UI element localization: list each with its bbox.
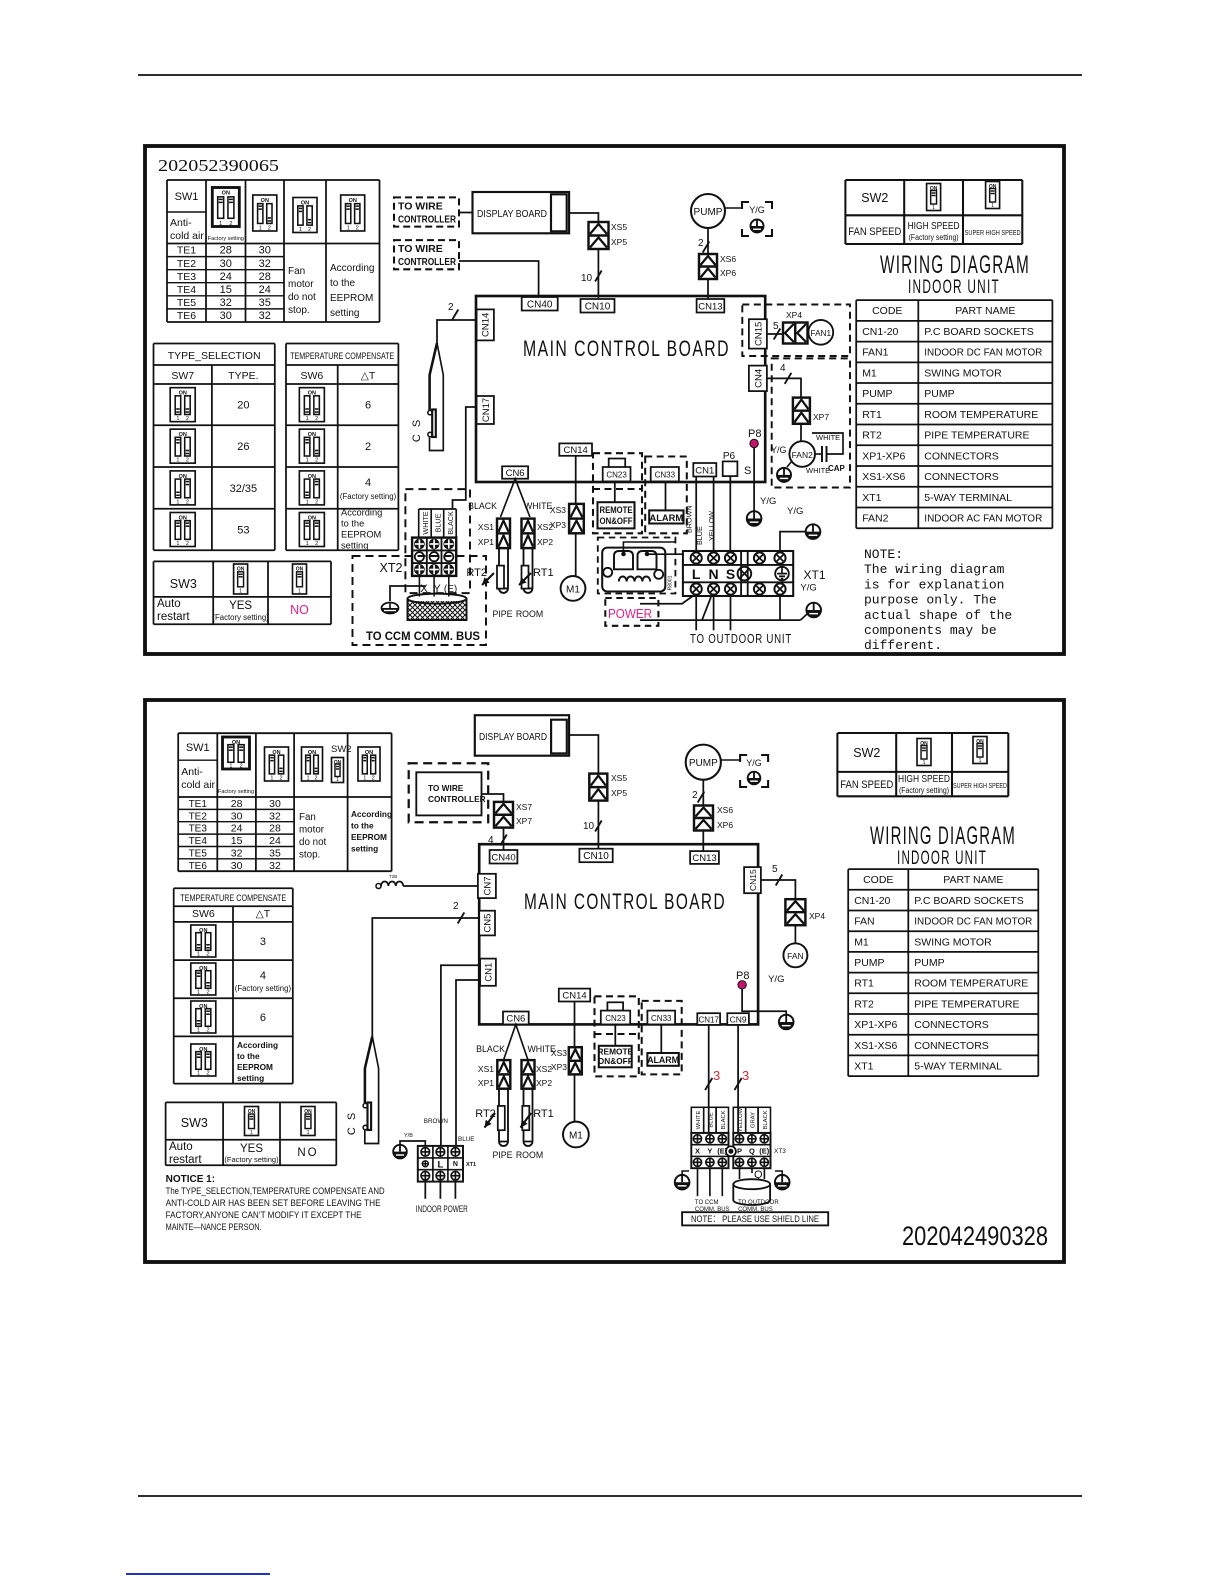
svg-text:FACTORY,ANYONE CAN’T MODIFY IT: FACTORY,ANYONE CAN’T MODIFY IT EXCEPT TH…: [166, 1210, 362, 1221]
svg-text:10: 10: [581, 273, 593, 284]
svg-text:According: According: [237, 1040, 278, 1050]
svg-text:setting: setting: [341, 541, 368, 551]
svg-text:TE2: TE2: [177, 258, 196, 270]
svg-text:35: 35: [259, 297, 271, 309]
svg-text:30: 30: [231, 810, 243, 822]
svg-text:32: 32: [231, 848, 243, 860]
svg-text:CN23: CN23: [605, 1014, 626, 1023]
svg-text:CONTROLLER: CONTROLLER: [398, 213, 456, 225]
svg-text:GRAY: GRAY: [750, 1112, 756, 1128]
svg-text:PIPE: PIPE: [492, 1150, 512, 1160]
svg-text:P: P: [737, 1147, 742, 1156]
svg-text:TE1: TE1: [189, 799, 208, 810]
svg-text:CN40: CN40: [491, 852, 515, 863]
svg-text:1: 1: [219, 221, 222, 227]
svg-text:MAINTE—NANCE PERSON.: MAINTE—NANCE PERSON.: [166, 1222, 262, 1233]
svg-text:2: 2: [207, 952, 210, 958]
svg-text:M1: M1: [569, 1131, 583, 1142]
svg-text:PUMP: PUMP: [689, 758, 718, 769]
svg-text:2: 2: [698, 238, 704, 249]
svg-text:Factory setting: Factory setting: [218, 789, 254, 795]
svg-text:NOTICE 1:: NOTICE 1:: [166, 1174, 215, 1185]
svg-text:XS1: XS1: [478, 1064, 494, 1074]
svg-text:CN10: CN10: [585, 301, 611, 312]
svg-text:26: 26: [237, 441, 249, 453]
svg-text:(Factory setting): (Factory setting): [212, 613, 269, 622]
svg-text:PUMP: PUMP: [924, 388, 954, 400]
svg-text:32: 32: [220, 297, 232, 309]
svg-text:SW1: SW1: [175, 191, 199, 203]
svg-text:32: 32: [269, 860, 281, 872]
svg-text:30: 30: [220, 258, 232, 270]
svg-text:XS6: XS6: [720, 254, 736, 264]
svg-text:REMOTE: REMOTE: [600, 505, 633, 515]
svg-text:INDOOR DC FAN MOTOR: INDOOR DC FAN MOTOR: [914, 916, 1032, 928]
svg-text:stop.: stop.: [299, 850, 320, 861]
svg-text:CN17: CN17: [698, 1016, 719, 1025]
svg-text:Y/G: Y/G: [768, 974, 784, 985]
svg-text:CONTROLLER: CONTROLLER: [398, 256, 456, 268]
svg-text:BLACK: BLACK: [476, 1044, 505, 1054]
svg-text:5-WAY TERMINAL: 5-WAY TERMINAL: [914, 1060, 1002, 1072]
svg-text:NOTE： PLEASE USE SHIELD LINE: NOTE： PLEASE USE SHIELD LINE: [691, 1214, 819, 1225]
svg-text:C S: C S: [411, 418, 423, 442]
svg-text:PART NAME: PART NAME: [955, 305, 1015, 317]
svg-text:FAN2: FAN2: [792, 450, 814, 460]
svg-text:TYPE.: TYPE.: [228, 370, 258, 382]
svg-text:TO CCM COMM. BUS: TO CCM COMM. BUS: [366, 629, 480, 643]
svg-text:RT2: RT2: [466, 567, 487, 579]
svg-text:2: 2: [365, 441, 371, 453]
svg-text:SW3: SW3: [181, 1116, 208, 1130]
svg-text:XP3: XP3: [550, 520, 566, 530]
svg-text:Y/G: Y/G: [771, 445, 787, 455]
svg-text:XP5: XP5: [611, 788, 627, 798]
svg-text:XP1-XP6: XP1-XP6: [854, 1019, 897, 1031]
svg-text:ROOM TEMPERATURE: ROOM TEMPERATURE: [924, 409, 1038, 421]
svg-text:CN14: CN14: [564, 445, 588, 456]
svg-text:restart: restart: [169, 1154, 202, 1166]
svg-text:Y/B: Y/B: [404, 1133, 413, 1139]
svg-text:WIRING DIAGRAM: WIRING DIAGRAM: [870, 822, 1016, 850]
svg-text:do not: do not: [299, 837, 327, 848]
svg-text:XP4: XP4: [786, 310, 802, 320]
svg-text:32: 32: [269, 810, 281, 822]
svg-text:1: 1: [363, 776, 366, 782]
svg-text:PART NAME: PART NAME: [943, 874, 1003, 886]
svg-text:24: 24: [220, 271, 232, 283]
svg-text:According: According: [330, 263, 374, 274]
svg-text:P.C BOARD SOCKETS: P.C BOARD SOCKETS: [914, 895, 1024, 907]
svg-text:TO CCM: TO CCM: [695, 1200, 719, 1206]
svg-text:INDOOR UNIT: INDOOR UNIT: [908, 277, 1000, 298]
svg-text:components may be: components may be: [864, 623, 997, 638]
svg-text:CN13: CN13: [692, 853, 716, 864]
svg-text:According: According: [341, 508, 382, 518]
svg-text:2: 2: [308, 227, 311, 233]
svg-text:NOTE:: NOTE:: [864, 547, 903, 562]
svg-text:XT2: XT2: [380, 561, 403, 575]
svg-text:INDOOR UNIT: INDOOR UNIT: [897, 848, 987, 869]
svg-text:XS1-XS6: XS1-XS6: [862, 471, 905, 483]
svg-text:2: 2: [240, 764, 243, 770]
svg-text:202042490328: 202042490328: [902, 1221, 1048, 1251]
svg-text:SW2: SW2: [331, 744, 352, 755]
svg-text:15: 15: [220, 284, 232, 296]
svg-text:32/35: 32/35: [230, 483, 258, 495]
svg-text:BROWN: BROWN: [424, 1118, 449, 1125]
svg-text:1: 1: [197, 952, 200, 958]
svg-text:C S: C S: [346, 1111, 358, 1135]
svg-text:30: 30: [231, 860, 243, 872]
svg-text:CN14: CN14: [562, 991, 586, 1002]
svg-text:RT1: RT1: [533, 567, 554, 579]
svg-text:actual shape of the: actual shape of the: [864, 608, 1012, 623]
svg-text:CN13: CN13: [698, 301, 722, 312]
svg-text:different.: different.: [864, 638, 942, 653]
svg-text:XP7: XP7: [813, 412, 829, 422]
svg-text:1: 1: [307, 1130, 310, 1136]
svg-text:CN1-20: CN1-20: [854, 895, 890, 907]
svg-text:XS1-XS6: XS1-XS6: [854, 1040, 897, 1052]
svg-text:2: 2: [692, 790, 698, 801]
svg-text:T2B: T2B: [389, 874, 397, 879]
svg-text:WHITE: WHITE: [696, 1111, 702, 1130]
svg-text:REMOTE: REMOTE: [598, 1047, 634, 1057]
svg-text:2: 2: [186, 416, 189, 422]
svg-text:1: 1: [197, 1028, 200, 1034]
svg-text:SW3: SW3: [170, 577, 197, 591]
svg-text:2: 2: [356, 226, 359, 232]
svg-text:(Factory setting): (Factory setting): [909, 233, 959, 242]
svg-text:2: 2: [314, 776, 317, 782]
svg-text:HIGH SPEED: HIGH SPEED: [898, 773, 950, 785]
svg-text:Y: Y: [707, 1147, 712, 1156]
svg-text:INDOOR DC FAN MOTOR: INDOOR DC FAN MOTOR: [924, 347, 1042, 359]
svg-text:BLUE: BLUE: [708, 1112, 714, 1127]
svg-text:CN33: CN33: [651, 1014, 672, 1023]
svg-text:1: 1: [270, 776, 273, 782]
svg-text:restart: restart: [157, 611, 190, 623]
svg-text:BLACK: BLACK: [763, 1110, 769, 1129]
svg-text:motor: motor: [288, 279, 314, 290]
svg-text:32: 32: [259, 258, 271, 270]
svg-text:BLACK: BLACK: [468, 501, 497, 511]
svg-text:TO OUTDOOR UNIT: TO OUTDOOR UNIT: [690, 631, 792, 646]
svg-text:1: 1: [932, 205, 935, 211]
svg-text:XT1: XT1: [804, 568, 826, 582]
svg-text:202052390065: 202052390065: [158, 156, 279, 175]
svg-text:1: 1: [250, 1130, 253, 1136]
svg-text:35: 35: [269, 848, 281, 860]
svg-text:YELLOW: YELLOW: [738, 1107, 744, 1132]
svg-text:1: 1: [229, 764, 232, 770]
svg-text:S: S: [726, 566, 735, 582]
svg-text:L: L: [437, 1160, 443, 1171]
svg-text:TE1: TE1: [177, 245, 196, 257]
svg-text:RT1: RT1: [533, 1108, 554, 1120]
svg-text:5: 5: [772, 864, 778, 875]
svg-text:The wiring diagram: The wiring diagram: [864, 562, 1005, 577]
svg-text:SW1: SW1: [186, 742, 210, 754]
svg-text:SW7: SW7: [171, 370, 194, 382]
svg-text:(E): (E): [759, 1147, 770, 1156]
svg-text:BLACK: BLACK: [446, 511, 455, 535]
svg-text:PIPE TEMPERATURE: PIPE TEMPERATURE: [924, 430, 1029, 442]
svg-text:CN5: CN5: [483, 914, 494, 933]
svg-text:1: 1: [336, 777, 339, 783]
svg-text:CN15: CN15: [748, 869, 758, 891]
svg-text:do not: do not: [288, 292, 316, 303]
svg-text:△T: △T: [361, 370, 376, 382]
svg-text:CAP: CAP: [828, 464, 846, 473]
svg-text:N: N: [453, 1161, 458, 1168]
svg-text:(Factory setting): (Factory setting): [224, 1155, 279, 1164]
svg-text:1: 1: [979, 758, 982, 764]
svg-text:L: L: [692, 566, 701, 582]
svg-text:CN17: CN17: [481, 398, 492, 422]
svg-text:XP3: XP3: [551, 1062, 567, 1072]
svg-text:TE4: TE4: [177, 284, 196, 296]
svg-text:M1: M1: [566, 585, 580, 596]
svg-text:2: 2: [315, 541, 318, 547]
svg-text:CN4: CN4: [753, 369, 764, 388]
svg-text:CODE: CODE: [863, 874, 893, 886]
svg-text:XP6: XP6: [717, 820, 733, 830]
svg-text:TE4: TE4: [189, 836, 208, 847]
svg-text:TE2: TE2: [189, 811, 208, 822]
svg-text:15: 15: [231, 835, 243, 847]
svg-text:4: 4: [365, 477, 371, 489]
svg-text:TE6: TE6: [189, 861, 208, 872]
svg-text:WHITE: WHITE: [816, 433, 840, 442]
svg-text:is for explanation: is for explanation: [864, 577, 1004, 592]
svg-text:R8001: R8001: [668, 575, 674, 590]
svg-text:(Factory setting): (Factory setting): [340, 492, 397, 501]
svg-text:EEPROM: EEPROM: [237, 1062, 273, 1072]
svg-text:2: 2: [186, 458, 189, 464]
svg-text:TE3: TE3: [189, 824, 208, 835]
svg-text:XP6: XP6: [720, 268, 736, 278]
svg-text:1: 1: [923, 760, 926, 766]
svg-text:YELLOW: YELLOW: [707, 511, 716, 541]
svg-text:28: 28: [269, 823, 281, 835]
svg-text:PUMP: PUMP: [694, 207, 723, 218]
svg-text:XP1: XP1: [478, 537, 494, 547]
svg-text:2: 2: [448, 302, 454, 313]
svg-text:Anti-: Anti-: [170, 217, 192, 229]
svg-text:CN14: CN14: [481, 313, 492, 337]
svg-text:XS3: XS3: [550, 505, 566, 515]
svg-text:28: 28: [220, 245, 232, 257]
svg-text:TO WIRE: TO WIRE: [428, 783, 464, 793]
svg-text:M1: M1: [862, 367, 877, 379]
svg-text:Q: Q: [749, 1147, 755, 1156]
svg-text:SW2: SW2: [861, 191, 888, 205]
svg-text:1: 1: [197, 990, 200, 996]
svg-text:SUPER HIGH SPEED: SUPER HIGH SPEED: [953, 781, 1007, 790]
svg-text:WHITE: WHITE: [421, 511, 430, 534]
svg-text:ON&OFF: ON&OFF: [600, 516, 633, 526]
svg-text:EEPROM: EEPROM: [330, 293, 373, 304]
svg-text:2: 2: [453, 901, 459, 912]
svg-text:FAN1: FAN1: [811, 329, 832, 338]
svg-text:Y/G: Y/G: [746, 758, 762, 768]
svg-text:ROOM: ROOM: [516, 1150, 543, 1160]
svg-text:CN1: CN1: [695, 465, 714, 476]
svg-text:INDOOR AC FAN MOTOR: INDOOR AC FAN MOTOR: [924, 513, 1042, 525]
svg-text:2: 2: [229, 221, 232, 227]
svg-text:setting: setting: [351, 844, 378, 854]
svg-text:28: 28: [259, 271, 271, 283]
svg-text:FAN1: FAN1: [862, 347, 888, 359]
svg-text:1: 1: [991, 203, 994, 209]
svg-text:CONNECTORS: CONNECTORS: [914, 1040, 988, 1052]
svg-text:Y/G: Y/G: [800, 583, 816, 594]
svg-text:XP1: XP1: [478, 1078, 494, 1088]
svg-text:5-WAY TERMINAL: 5-WAY TERMINAL: [924, 492, 1012, 504]
svg-text:INDOOR POWER: INDOOR POWER: [416, 1204, 468, 1215]
svg-text:24: 24: [259, 284, 271, 296]
svg-text:TE5: TE5: [189, 849, 208, 860]
svg-text:WHITE: WHITE: [806, 466, 830, 475]
svg-text:XT1: XT1: [862, 492, 881, 504]
svg-text:RT2: RT2: [854, 998, 874, 1010]
svg-text:motor: motor: [299, 825, 325, 836]
svg-text:2: 2: [315, 416, 318, 422]
svg-text:5: 5: [773, 321, 779, 332]
svg-text:2: 2: [280, 776, 283, 782]
svg-text:stop.: stop.: [288, 305, 310, 316]
svg-text:SWING MOTOR: SWING MOTOR: [914, 936, 992, 948]
svg-text:32: 32: [259, 310, 271, 322]
svg-text:YES: YES: [229, 600, 252, 612]
svg-text:XS1: XS1: [478, 522, 494, 532]
svg-text:1: 1: [347, 226, 350, 232]
svg-text:1: 1: [306, 541, 309, 547]
svg-text:WIRING DIAGRAM: WIRING DIAGRAM: [880, 251, 1030, 279]
svg-text:purpose only. The: purpose only. The: [864, 593, 997, 608]
svg-text:2: 2: [186, 541, 189, 547]
svg-text:Fan: Fan: [299, 812, 316, 823]
svg-text:TE5: TE5: [177, 297, 196, 309]
svg-text:S: S: [744, 465, 751, 477]
svg-text:4: 4: [260, 970, 266, 982]
svg-text:30: 30: [269, 798, 281, 810]
svg-text:XS5: XS5: [611, 773, 627, 783]
svg-text:CODE: CODE: [872, 305, 902, 317]
svg-text:FAN SPEED: FAN SPEED: [848, 226, 901, 238]
svg-text:SW2: SW2: [853, 746, 880, 760]
svg-text:WHITE: WHITE: [524, 501, 552, 511]
svg-text:According: According: [351, 809, 392, 819]
svg-text:TE3: TE3: [177, 271, 196, 283]
svg-text:CN40: CN40: [527, 299, 553, 310]
svg-text:P6: P6: [723, 451, 736, 462]
svg-text:Auto: Auto: [157, 598, 181, 610]
svg-text:ON: ON: [222, 191, 230, 197]
svg-text:1: 1: [298, 589, 301, 595]
svg-text:DISPLAY BOARD: DISPLAY BOARD: [477, 209, 547, 220]
svg-text:to the: to the: [237, 1051, 260, 1061]
svg-text:CN23: CN23: [606, 471, 627, 480]
svg-text:1: 1: [176, 541, 179, 547]
svg-text:1: 1: [176, 416, 179, 422]
svg-text:Y/G: Y/G: [787, 506, 803, 517]
svg-text:2: 2: [315, 458, 318, 464]
svg-text:XS5: XS5: [611, 222, 627, 232]
svg-text:20: 20: [237, 400, 249, 412]
svg-text:TE6: TE6: [177, 310, 196, 322]
svg-text:FAN2: FAN2: [862, 513, 888, 525]
svg-text:△T: △T: [256, 908, 271, 920]
svg-text:1: 1: [306, 499, 309, 505]
svg-text:P8: P8: [748, 428, 761, 440]
svg-text:RT1: RT1: [862, 409, 882, 421]
svg-text:XP2: XP2: [536, 1078, 552, 1088]
svg-text:CN7: CN7: [482, 876, 493, 895]
svg-text:setting: setting: [330, 308, 359, 319]
svg-text:PUMP: PUMP: [854, 957, 884, 969]
svg-text:XS6: XS6: [717, 805, 733, 815]
svg-text:2: 2: [207, 1071, 210, 1077]
svg-text:EEPROM: EEPROM: [341, 530, 381, 540]
svg-text:Auto: Auto: [169, 1141, 193, 1153]
svg-text:PIPE: PIPE: [492, 609, 512, 619]
svg-text:BLUE: BLUE: [695, 526, 704, 545]
svg-text:ROOM TEMPERATURE: ROOM TEMPERATURE: [914, 978, 1028, 990]
svg-text:TO WIRE: TO WIRE: [398, 243, 443, 255]
svg-text:24: 24: [269, 835, 281, 847]
svg-text:SW6: SW6: [300, 370, 323, 382]
svg-text:1: 1: [306, 416, 309, 422]
svg-text:ANTI-COLD AIR HAS BEEN SET BEF: ANTI-COLD AIR HAS BEEN SET BEFORE LEAVIN…: [166, 1198, 381, 1209]
svg-text:TEMPERATURE COMPENSATE: TEMPERATURE COMPENSATE: [290, 351, 394, 361]
svg-text:3: 3: [260, 936, 266, 948]
svg-text:2: 2: [315, 499, 318, 505]
svg-text:XT1: XT1: [854, 1060, 873, 1072]
svg-text:Fan: Fan: [288, 266, 305, 277]
svg-text:PUMP: PUMP: [914, 957, 944, 969]
svg-text:BLUE: BLUE: [458, 1136, 474, 1143]
svg-text:NO: NO: [297, 1147, 318, 1159]
svg-text:CN9: CN9: [730, 1015, 747, 1025]
svg-text:XP4: XP4: [809, 911, 825, 921]
svg-text:M1: M1: [854, 936, 869, 948]
svg-text:1: 1: [299, 227, 302, 233]
svg-text:(Factory setting): (Factory setting): [235, 984, 292, 993]
svg-text:CONNECTORS: CONNECTORS: [924, 450, 998, 462]
svg-text:ON&OFF: ON&OFF: [598, 1056, 633, 1066]
svg-text:2: 2: [372, 776, 375, 782]
svg-text:2: 2: [207, 1028, 210, 1034]
svg-text:XS3: XS3: [551, 1048, 567, 1058]
svg-text:NO: NO: [290, 603, 309, 617]
svg-text:XP2: XP2: [537, 537, 553, 547]
svg-text:CONNECTORS: CONNECTORS: [924, 471, 998, 483]
svg-text:1: 1: [176, 499, 179, 505]
svg-text:BLACK: BLACK: [721, 1110, 727, 1129]
svg-text:XP1-XP6: XP1-XP6: [862, 450, 905, 462]
svg-text:FAN SPEED: FAN SPEED: [840, 779, 893, 791]
svg-text:2: 2: [207, 990, 210, 996]
svg-text:TEMPERATURE COMPENSATE: TEMPERATURE COMPENSATE: [180, 893, 286, 903]
svg-text:TO OUTDOOR: TO OUTDOOR: [738, 1200, 779, 1206]
svg-text:POWER: POWER: [608, 606, 652, 621]
svg-text:PUMP: PUMP: [862, 388, 892, 400]
svg-text:XT3: XT3: [774, 1148, 786, 1155]
svg-text:SW6: SW6: [192, 908, 215, 920]
